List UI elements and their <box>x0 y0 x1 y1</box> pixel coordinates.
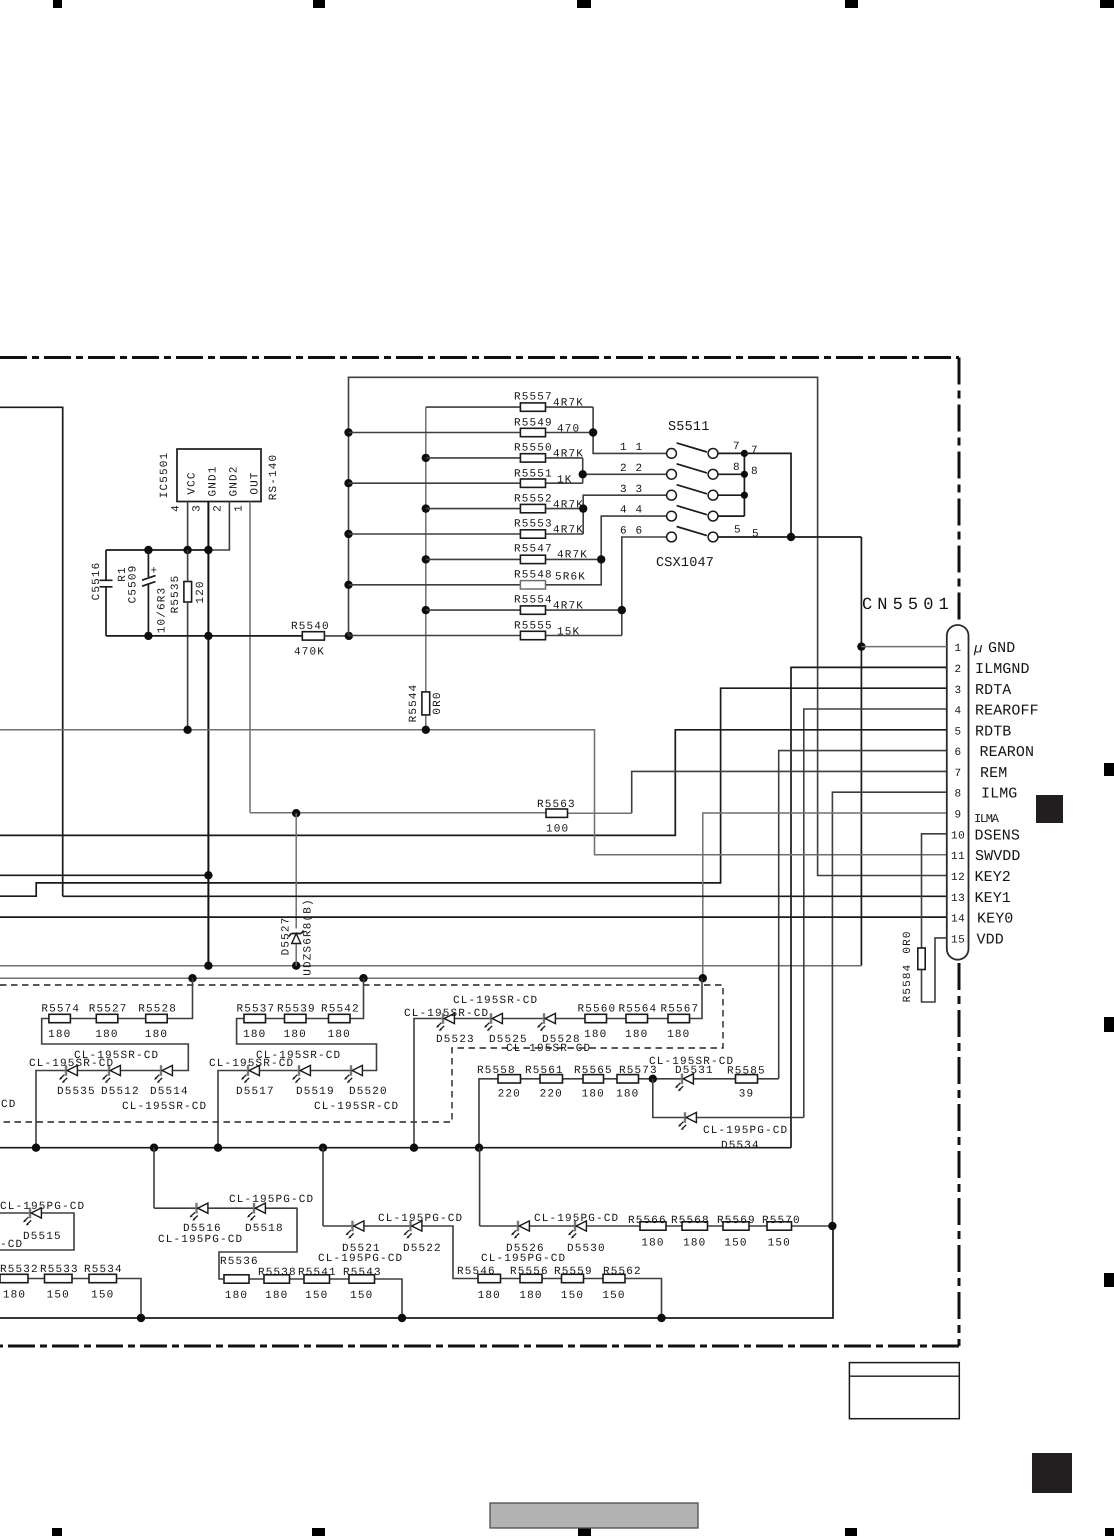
wire R5558 chain row <box>479 1079 779 1148</box>
svg-text:150: 150 <box>768 1238 791 1250</box>
resistor R5554 (4R7K) <box>426 609 622 611</box>
dash-dot border top <box>0 356 959 359</box>
LED D5522 <box>404 1221 422 1239</box>
switch S5511 pole 2 <box>620 462 759 479</box>
wire PG chain C row <box>480 1225 833 1227</box>
resistor R5585 <box>727 1066 766 1101</box>
resistor R5556 <box>510 1266 549 1302</box>
resistor R5544 (0R0) vertical <box>422 692 430 715</box>
svg-text:CL-195PG-CD: CL-195PG-CD <box>703 1125 788 1137</box>
svg-text:4: 4 <box>171 504 183 512</box>
svg-text:D5519: D5519 <box>296 1086 335 1098</box>
wire IC pin2 GND2 lead <box>208 502 229 551</box>
svg-text:RDTA: RDTA <box>975 682 1011 699</box>
svg-text:4R7K: 4R7K <box>553 601 584 613</box>
svg-text:14: 14 <box>951 914 965 926</box>
wire SR group2 snake <box>218 978 377 1147</box>
wire pin3 RDTA route <box>0 688 947 896</box>
svg-text:CL-195PG-CD: CL-195PG-CD <box>229 1194 314 1206</box>
wire pin7 REM from R5563 <box>632 771 947 813</box>
svg-text:ILMG: ILMG <box>981 786 1017 803</box>
op IC5501 box <box>177 449 261 502</box>
svg-text:3: 3 <box>955 685 962 697</box>
switch S5511 pole 1 <box>620 441 759 458</box>
svg-text:R5557: R5557 <box>514 392 553 404</box>
svg-text:5R6K: 5R6K <box>555 572 586 584</box>
registration mark bottom 3 <box>578 1528 591 1536</box>
svg-text:CL-195SR-CD: CL-195SR-CD <box>209 1058 294 1070</box>
resistor R5549 (470) <box>349 432 594 434</box>
registration mark bottom 2 <box>312 1528 325 1536</box>
svg-text:R5565: R5565 <box>574 1065 613 1077</box>
wire top bus line <box>349 377 947 875</box>
svg-text:D5522: D5522 <box>403 1243 442 1255</box>
registration mark right square <box>1036 795 1063 823</box>
svg-text:R5540: R5540 <box>291 621 330 633</box>
resistor R5573 <box>616 1065 658 1101</box>
wire R5532 row <box>0 1279 141 1319</box>
wire riser R5554/R5555 to switch row6 <box>622 537 667 636</box>
resistor R5551 (1K) <box>349 482 583 484</box>
wire pin13 KEY1 line <box>63 895 947 897</box>
svg-text:R5536: R5536 <box>220 1256 259 1268</box>
wire pin9 ILMA riser <box>703 813 947 978</box>
resistor R5552 (4R7K) <box>426 508 583 510</box>
LED D5519 <box>292 1065 310 1083</box>
connector CN5501 body <box>947 625 969 960</box>
wire LED cathode bus <box>0 1147 791 1149</box>
svg-text:D5535: D5535 <box>57 1086 96 1098</box>
switch S5511 pole 4 <box>620 505 718 521</box>
svg-text:R5559: R5559 <box>554 1266 593 1278</box>
svg-text:R5558: R5558 <box>477 1065 516 1077</box>
svg-text:R5546: R5546 <box>457 1266 496 1278</box>
svg-text:R5553: R5553 <box>514 519 553 531</box>
svg-text:R5563: R5563 <box>537 799 576 811</box>
resistor R5532 <box>0 1264 39 1302</box>
svg-text:VCC: VCC <box>187 471 199 494</box>
svg-text:D5512: D5512 <box>101 1086 140 1098</box>
svg-text:180: 180 <box>328 1029 351 1041</box>
svg-text:REM: REM <box>980 765 1007 782</box>
resistor R5539 <box>277 1003 316 1041</box>
svg-text:4R7K: 4R7K <box>557 550 588 562</box>
wire top supply rail <box>106 549 208 551</box>
svg-text:D5531: D5531 <box>675 1065 714 1077</box>
svg-text:12: 12 <box>951 872 965 884</box>
svg-text:D5518: D5518 <box>245 1223 284 1235</box>
svg-text:4R7K: 4R7K <box>553 398 584 410</box>
svg-text:GND2: GND2 <box>229 465 241 496</box>
svg-text:R5585: R5585 <box>727 1066 766 1078</box>
svg-text:R5562: R5562 <box>603 1266 642 1278</box>
svg-text:D5534: D5534 <box>721 1140 760 1152</box>
svg-text:180: 180 <box>625 1029 648 1041</box>
wire riser R5557/R5549 to switch row1 <box>593 407 667 453</box>
svg-text:10/6R3: 10/6R3 <box>157 587 169 634</box>
resistor R5555 (15K) <box>349 635 622 637</box>
svg-text:CSX1047: CSX1047 <box>656 556 714 571</box>
svg-text:CL-195SR-CD: CL-195SR-CD <box>506 1043 591 1055</box>
svg-text:DSENS: DSENS <box>975 828 1021 845</box>
svg-text:15: 15 <box>951 935 965 947</box>
dash-dot border right lower <box>958 963 961 1346</box>
resistor R5568 <box>671 1215 710 1250</box>
svg-text:1: 1 <box>636 442 644 454</box>
wire riser R5547/R5548 to switch row4 <box>601 516 667 585</box>
svg-text:0R0: 0R0 <box>902 930 914 953</box>
svg-text:R5528: R5528 <box>138 1003 177 1015</box>
svg-text:180: 180 <box>582 1089 605 1101</box>
resistor R5565 <box>574 1065 613 1101</box>
wire drop to PG chain A <box>153 1148 155 1209</box>
LED D5534 <box>678 1112 696 1130</box>
wire bus B vertical <box>425 407 427 730</box>
dashed partition box <box>0 985 723 1122</box>
resistor R5547 (4R7K) <box>426 558 601 560</box>
wire switch row5 to pin1 net <box>718 536 862 538</box>
wire IC pin3 GND1 lead bold vertical to ground bus <box>207 502 209 966</box>
svg-text:D5527: D5527 <box>281 917 293 956</box>
svg-text:R5554: R5554 <box>514 595 553 607</box>
resistor R5535 (120) vertical <box>184 582 192 603</box>
svg-text:R5569: R5569 <box>717 1215 756 1227</box>
svg-text:R5570: R5570 <box>762 1215 801 1227</box>
node bus B taps <box>422 454 430 462</box>
svg-text:R5561: R5561 <box>525 1065 564 1077</box>
svg-text:180: 180 <box>265 1290 288 1302</box>
svg-text:180: 180 <box>683 1238 706 1250</box>
wire riser R5552/R5553 to switch row3 <box>583 495 667 534</box>
svg-text:180: 180 <box>95 1029 118 1041</box>
svg-text:5: 5 <box>734 525 742 537</box>
wire D5515 loop <box>0 1213 74 1250</box>
resistor R5528 <box>138 1003 177 1041</box>
node D5531 branch <box>649 1075 657 1083</box>
svg-text:15K: 15K <box>557 627 580 639</box>
svg-text:5: 5 <box>955 727 962 739</box>
wire switch right contacts 1-4 tie <box>718 453 745 516</box>
dash-dot border right upper <box>958 358 961 622</box>
wire pin1 lead <box>861 646 946 648</box>
svg-text:SWVDD: SWVDD <box>975 848 1021 865</box>
svg-text:1: 1 <box>620 442 628 454</box>
svg-text:6: 6 <box>620 526 628 538</box>
wire pin2 ILMGND riser to LED bus <box>791 667 947 1147</box>
registration mark top 1 <box>53 0 62 8</box>
LED D5514 <box>154 1065 172 1083</box>
zener diode D5527 (UDZS6R8(B)) <box>295 813 297 966</box>
svg-text:470: 470 <box>557 424 580 436</box>
svg-text:KEY2: KEY2 <box>975 869 1011 886</box>
registration mark bottom 5 <box>1105 1528 1114 1536</box>
svg-text:R5533: R5533 <box>40 1264 79 1276</box>
registration mark right 1 <box>1104 763 1114 776</box>
LED D5528 <box>537 1013 555 1031</box>
svg-text:R5544: R5544 <box>408 684 420 723</box>
svg-text:180: 180 <box>3 1290 26 1302</box>
svg-text:CD: CD <box>1 1099 17 1111</box>
svg-text:2: 2 <box>636 463 644 475</box>
resistor R5550 (4R7K) <box>426 457 583 459</box>
svg-text:D5515: D5515 <box>23 1231 62 1243</box>
resistor R5557 (4R7K) <box>426 406 593 408</box>
wire IC pin1 OUT lead vertical <box>249 502 251 813</box>
wire pin8 ILMG vertical <box>832 792 946 1226</box>
svg-text:R5532: R5532 <box>0 1264 39 1276</box>
wire bottom return bus <box>0 1226 833 1318</box>
svg-text:ILMA: ILMA <box>974 812 1000 826</box>
capacitor C5516 <box>100 550 113 636</box>
svg-text:R5556: R5556 <box>510 1266 549 1278</box>
svg-text:R5567: R5567 <box>661 1003 700 1015</box>
svg-text:R5541: R5541 <box>298 1267 337 1279</box>
resistor R5563 (100) <box>250 812 632 815</box>
svg-text:D5514: D5514 <box>150 1086 189 1098</box>
wire SR group3 row <box>414 978 702 1147</box>
LED D5515 <box>23 1208 41 1226</box>
svg-text:KEY0: KEY0 <box>977 911 1013 928</box>
wire drop to PG chain B <box>322 1148 324 1226</box>
resistor R5533 <box>40 1264 79 1302</box>
svg-text:3: 3 <box>192 504 204 512</box>
wire drop to PG chain C <box>479 1148 481 1226</box>
svg-text:IC5501: IC5501 <box>159 452 171 499</box>
LED D5525 <box>484 1013 502 1031</box>
svg-text:150: 150 <box>602 1290 625 1302</box>
wire pin6 REARON riser <box>779 751 947 1079</box>
switch S5511 pole 3 <box>620 484 718 500</box>
svg-text:0R0: 0R0 <box>432 691 444 714</box>
gray bar bottom center <box>490 1503 698 1528</box>
resistor R5548 (5R6K) <box>349 584 601 586</box>
LED D5531 <box>675 1074 693 1092</box>
LED D5535 <box>59 1065 77 1083</box>
svg-text:µ: µ <box>973 642 983 658</box>
wire riser R5550/R5551 to switch row2 <box>583 458 667 483</box>
svg-text:1K: 1K <box>557 475 573 487</box>
resistor R5540 (470K) <box>302 632 324 640</box>
svg-text:CL-195SR-CD: CL-195SR-CD <box>314 1101 399 1113</box>
svg-text:CL-195SR-CD: CL-195SR-CD <box>404 1008 489 1020</box>
resistor R5534 <box>84 1264 123 1302</box>
svg-text:6: 6 <box>955 747 962 759</box>
svg-text:4: 4 <box>955 706 962 718</box>
svg-text:4: 4 <box>620 505 628 517</box>
svg-text:CL-195PG-CD: CL-195PG-CD <box>0 1201 85 1213</box>
svg-text:3: 3 <box>636 484 644 496</box>
wire row1 common over to row5 <box>744 453 791 537</box>
registration mark top 4 <box>845 0 858 8</box>
svg-text:2: 2 <box>213 504 225 512</box>
resistor R5562 <box>602 1266 641 1302</box>
dash-dot border bottom <box>0 1345 959 1348</box>
svg-text:R5584: R5584 <box>902 964 914 1003</box>
node R5540 output <box>345 632 353 640</box>
svg-text:470K: 470K <box>294 647 325 659</box>
svg-text:13: 13 <box>951 893 965 905</box>
LED D5521 <box>346 1221 364 1239</box>
wire SWVDD line from left <box>0 730 947 855</box>
svg-text:1: 1 <box>955 643 962 655</box>
svg-text:R5527: R5527 <box>89 1003 128 1015</box>
svg-text:CL-195PG-CD: CL-195PG-CD <box>534 1213 619 1225</box>
wire pin5 RDTB route <box>0 730 947 836</box>
svg-text:220: 220 <box>540 1089 563 1101</box>
LED D5520 <box>344 1065 362 1083</box>
svg-text:OUT: OUT <box>250 471 262 494</box>
svg-text:R5560: R5560 <box>578 1003 617 1015</box>
wire bottom rail to R5540 <box>106 635 302 637</box>
svg-text:D5517: D5517 <box>236 1086 275 1098</box>
svg-text:150: 150 <box>350 1290 373 1302</box>
svg-text:180: 180 <box>641 1238 664 1250</box>
wire pin10 DSENS to R5584 <box>922 834 947 948</box>
svg-text:5: 5 <box>752 529 760 541</box>
resistor R5570 <box>762 1215 801 1250</box>
svg-text:120: 120 <box>195 580 207 603</box>
LED D5518 <box>247 1203 265 1221</box>
svg-text:CL-195PG-CD: CL-195PG-CD <box>378 1213 463 1225</box>
svg-text:D5530: D5530 <box>567 1243 606 1255</box>
svg-text:GND1: GND1 <box>208 465 220 496</box>
svg-text:R5538: R5538 <box>258 1267 297 1279</box>
svg-text:CL-195SR-CD: CL-195SR-CD <box>453 995 538 1007</box>
wire pin14 KEY0 line <box>0 916 947 918</box>
svg-text:180: 180 <box>616 1089 639 1101</box>
resistor R5558 <box>477 1065 521 1101</box>
wire D5534 branch <box>653 1079 804 1118</box>
svg-text:RS-140: RS-140 <box>268 454 280 501</box>
LED D5523 <box>436 1013 454 1031</box>
resistor R5543 <box>343 1267 382 1302</box>
resistor R5566 <box>628 1215 667 1250</box>
svg-text:REARON: REARON <box>980 744 1035 761</box>
svg-text:7: 7 <box>751 445 759 457</box>
resistor R5546 <box>457 1266 501 1302</box>
svg-text:ILMGND: ILMGND <box>975 661 1030 678</box>
resistor R5567 <box>661 1003 700 1041</box>
svg-text:UDZS6R8(B): UDZS6R8(B) <box>303 898 315 976</box>
resistor R5542 <box>321 1003 360 1041</box>
svg-text:R5574: R5574 <box>41 1003 80 1015</box>
resistor R5584 (0R0) vertical <box>918 948 925 970</box>
svg-text:39: 39 <box>739 1089 755 1101</box>
svg-text:180: 180 <box>584 1029 607 1041</box>
svg-text:180: 180 <box>667 1029 690 1041</box>
svg-text:180: 180 <box>145 1029 168 1041</box>
LED D5516 <box>190 1203 208 1221</box>
svg-text:R5542: R5542 <box>321 1003 360 1015</box>
svg-text:8: 8 <box>955 789 962 801</box>
wire mu-GND vertical and ground return line <box>860 537 862 966</box>
svg-text:180: 180 <box>225 1290 248 1302</box>
wire KEY1 feed from left edge <box>0 407 63 896</box>
registration mark bottom 4 <box>845 1528 857 1536</box>
wire pin4 REAROFF riser <box>804 709 947 1118</box>
resistor R5564 <box>619 1003 658 1041</box>
resistor R5561 <box>525 1065 564 1101</box>
svg-text:7: 7 <box>955 768 962 780</box>
svg-text:R5566: R5566 <box>628 1215 667 1227</box>
svg-text:180: 180 <box>243 1029 266 1041</box>
svg-text:180: 180 <box>519 1290 542 1302</box>
svg-text:R5551: R5551 <box>514 469 553 481</box>
svg-text:R5534: R5534 <box>84 1264 123 1276</box>
svg-text:C5516: C5516 <box>91 562 103 601</box>
wire PG chain A snake <box>154 1208 402 1318</box>
svg-text:KEY1: KEY1 <box>975 890 1011 907</box>
registration mark top 3 <box>577 0 591 8</box>
svg-text:R5535: R5535 <box>170 575 182 614</box>
resistor R5574 <box>41 1003 80 1041</box>
wire PG chain B snake <box>323 1226 662 1318</box>
svg-text:180: 180 <box>284 1029 307 1041</box>
node VCC rail / C5516 <box>144 546 152 554</box>
svg-text:-CD: -CD <box>0 1239 23 1251</box>
resistor R5538 <box>258 1267 297 1302</box>
resistor R5569 <box>717 1215 756 1250</box>
resistor R5537 <box>237 1003 276 1041</box>
svg-text:R5552: R5552 <box>514 494 553 506</box>
LED D5512 <box>102 1065 120 1083</box>
svg-text:R5549: R5549 <box>514 418 553 430</box>
svg-text:CL-195PG-CD: CL-195PG-CD <box>318 1253 403 1265</box>
svg-text:8: 8 <box>733 462 741 474</box>
LED D5517 <box>241 1065 259 1083</box>
resistor R5553 (4R7K) <box>349 533 584 535</box>
svg-text:220: 220 <box>498 1089 521 1101</box>
node D5527 top <box>292 809 300 817</box>
svg-text:150: 150 <box>91 1290 114 1302</box>
svg-text:CL-195PG-CD: CL-195PG-CD <box>481 1253 566 1265</box>
registration mark bottom 1 <box>52 1528 62 1536</box>
svg-text:D5523: D5523 <box>436 1034 475 1046</box>
svg-text:+: + <box>151 566 159 578</box>
LED D5526 <box>511 1221 529 1239</box>
svg-text:150: 150 <box>47 1290 70 1302</box>
svg-text:2: 2 <box>955 664 962 676</box>
svg-text:1: 1 <box>234 504 246 512</box>
svg-text:R5555: R5555 <box>514 621 553 633</box>
svg-text:11: 11 <box>951 851 965 863</box>
svg-text:CL-195SR-CD: CL-195SR-CD <box>122 1101 207 1113</box>
svg-text:CL-195SR-CD: CL-195SR-CD <box>29 1058 114 1070</box>
node bus A taps <box>344 428 352 436</box>
svg-text:D5520: D5520 <box>349 1086 388 1098</box>
svg-text:CN5501: CN5501 <box>862 596 954 615</box>
resistor R5560 <box>578 1003 617 1041</box>
svg-text:R5539: R5539 <box>277 1003 316 1015</box>
svg-text:100: 100 <box>546 824 569 836</box>
svg-text:180: 180 <box>48 1029 71 1041</box>
svg-text:150: 150 <box>561 1290 584 1302</box>
svg-text:150: 150 <box>724 1238 747 1250</box>
wire ILMA line from left <box>0 977 703 979</box>
svg-text:9: 9 <box>955 810 962 822</box>
svg-text:4: 4 <box>636 505 644 517</box>
svg-text:S5511: S5511 <box>668 420 710 435</box>
wire R5584 to pin15 VDD <box>922 938 947 1002</box>
svg-text:3: 3 <box>620 484 628 496</box>
resistor R5536 <box>220 1256 259 1302</box>
svg-text:7: 7 <box>733 441 741 453</box>
svg-text:R5547: R5547 <box>514 544 553 556</box>
svg-text:10: 10 <box>951 831 965 843</box>
svg-text:C5509: C5509 <box>128 565 140 604</box>
capacitor C5509 electrolytic <box>142 550 156 636</box>
svg-text:R5543: R5543 <box>343 1267 382 1279</box>
